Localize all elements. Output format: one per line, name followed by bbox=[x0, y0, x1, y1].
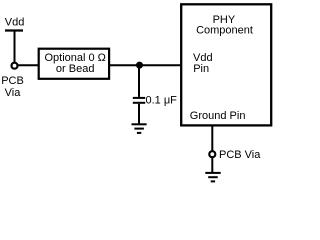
svg-text:PCB: PCB bbox=[1, 75, 24, 87]
svg-text:Ground Pin: Ground Pin bbox=[190, 110, 246, 122]
svg-text:or Bead: or Bead bbox=[56, 63, 95, 75]
svg-text:Via: Via bbox=[5, 87, 22, 99]
svg-text:Pin: Pin bbox=[193, 63, 209, 75]
svg-text:PCB Via: PCB Via bbox=[219, 149, 261, 161]
svg-text:Vdd: Vdd bbox=[193, 52, 213, 64]
svg-text:Vdd: Vdd bbox=[5, 17, 25, 29]
svg-text:Component: Component bbox=[196, 25, 253, 37]
svg-text:0.1 μF: 0.1 μF bbox=[146, 95, 178, 107]
